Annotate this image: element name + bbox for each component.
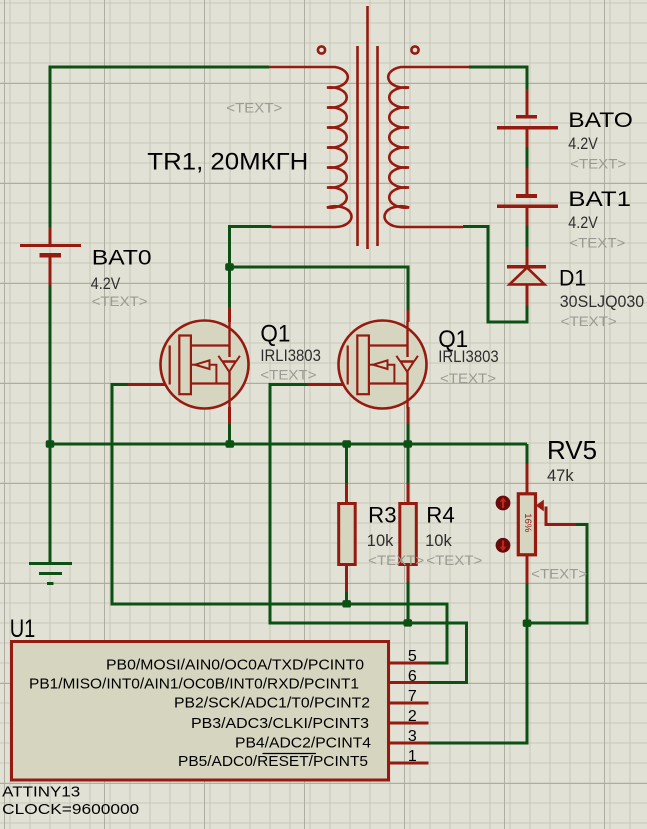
potentiometer RV5	[518, 494, 544, 555]
primary winding	[269, 67, 351, 227]
svg-text:2: 2	[408, 708, 417, 725]
transformer TR1	[269, 6, 469, 249]
svg-text:4.2V: 4.2V	[568, 214, 598, 232]
svg-text:<TEXT>: <TEXT>	[368, 552, 424, 568]
pin lead RV5 bottom	[526, 553, 529, 584]
svg-text:10k: 10k	[425, 532, 452, 550]
resistor R4	[400, 504, 417, 565]
svg-text:PB4/ADC2/PCINT4: PB4/ADC2/PCINT4	[235, 735, 371, 752]
wiper arrow	[536, 500, 544, 512]
pin stub U1 pin 6	[388, 681, 428, 684]
pin lead R3 top	[345, 483, 348, 504]
secondary winding	[385, 67, 469, 227]
wire right Q1 source to bus	[407, 424, 410, 444]
pin lead left Q1 gate	[128, 383, 170, 386]
wire RV5 bottom to pin 3	[428, 584, 527, 744]
pin lead D1 anode	[526, 284, 529, 306]
pot decrease button	[496, 538, 511, 553]
wire right Q1 gate net to pin 6	[270, 385, 467, 683]
wire R3 top	[345, 444, 348, 483]
pin stub U1 pin 5	[388, 662, 428, 665]
wire BAT0 minus down to ground and bus	[49, 285, 52, 563]
pin lead R3 bottom	[345, 564, 348, 592]
pin lead left Q1 drain	[228, 307, 231, 322]
battery BATO	[497, 117, 558, 128]
pin lead BATO bottom	[526, 128, 529, 147]
wire R4 top	[406, 444, 409, 483]
svg-text:PB2/SCK/ADC1/T0/PCINT2: PB2/SCK/ADC1/T0/PCINT2	[174, 695, 370, 712]
pin lead R4 top	[406, 483, 409, 504]
U1 chip body	[12, 642, 389, 781]
junction R4 bottom	[404, 619, 413, 626]
svg-text:PB3/ADC3/CLKI/PCINT3: PB3/ADC3/CLKI/PCINT3	[191, 715, 369, 732]
svg-text:<TEXT>: <TEXT>	[440, 370, 496, 386]
svg-text:<TEXT>: <TEXT>	[561, 313, 617, 329]
pin lead RV5 wiper	[546, 507, 576, 525]
wire RV5 top to bus	[526, 444, 529, 464]
wire main horizontal bus	[50, 443, 527, 446]
wire BAT1 to D1	[526, 226, 529, 247]
wire R4 bottom	[406, 582, 409, 623]
svg-text:10k: 10k	[367, 532, 394, 550]
svg-text:3: 3	[408, 728, 417, 745]
svg-text:PB1/MISO/INT0/AIN1/OC0B/INT0/R: PB1/MISO/INT0/AIN1/OC0B/INT0/RXD/PCINT1	[29, 676, 359, 693]
pin lead BAT0 bottom	[49, 255, 52, 285]
diode D1	[507, 267, 546, 285]
svg-text:U1: U1	[10, 615, 36, 643]
svg-text:47k: 47k	[547, 467, 574, 485]
transistor Q1 (left MOSFET)	[161, 321, 249, 409]
svg-text:ATTINY13: ATTINY13	[2, 784, 80, 801]
junction RV5 bottom node	[523, 620, 532, 627]
svg-text:R4: R4	[426, 503, 455, 528]
transistor Q1 (right MOSFET)	[339, 321, 427, 409]
battery BAT1	[497, 196, 558, 206]
svg-text:4.2V: 4.2V	[91, 275, 121, 293]
svg-text:R3: R3	[368, 503, 396, 528]
pin stub U1 pin 1	[388, 762, 428, 765]
svg-text:<TEXT>: <TEXT>	[260, 367, 316, 383]
svg-text:IRLI3803: IRLI3803	[438, 348, 499, 366]
pin lead right Q1 drain	[407, 310, 410, 322]
pin lead R4 bottom	[406, 564, 409, 582]
pin stub U1 pin 3	[388, 742, 428, 745]
svg-text:IRLI3803: IRLI3803	[260, 347, 321, 365]
svg-text:TR1, 20МКГН: TR1, 20МКГН	[147, 149, 308, 176]
pin lead D1 cathode	[526, 247, 529, 267]
wire drain branch to right Q1	[230, 267, 409, 310]
svg-text:<TEXT>: <TEXT>	[569, 235, 625, 251]
junction drain split node	[225, 263, 234, 270]
svg-text:<TEXT>: <TEXT>	[92, 293, 148, 309]
pin stub U1 pin 2	[388, 722, 428, 725]
wire D1 anode to secondary bottom	[463, 227, 527, 323]
wire left Q1 source to bus	[228, 424, 231, 444]
junction on bus at R4 / right Q1 source	[404, 440, 413, 447]
svg-text:<TEXT>: <TEXT>	[531, 566, 587, 582]
junction on bus at R3	[342, 440, 351, 447]
svg-text:4.2V: 4.2V	[568, 135, 598, 153]
pin lead left Q1 source	[228, 407, 231, 424]
svg-text:BAT1: BAT1	[568, 188, 631, 211]
wire RV5 wiper loop	[527, 524, 587, 623]
wire secondary top to BATO	[469, 67, 527, 89]
polarity dot primary	[318, 46, 325, 53]
svg-text:5: 5	[408, 648, 417, 665]
svg-text:<TEXT>: <TEXT>	[570, 155, 626, 171]
pot increase button	[496, 496, 511, 511]
junction on bus at BAT0 column	[46, 440, 55, 447]
pin lead BAT1 top	[526, 168, 529, 196]
svg-text:1: 1	[408, 748, 417, 765]
core	[358, 6, 378, 249]
svg-text:6: 6	[408, 668, 417, 685]
pin lead BAT1 bottom	[526, 206, 529, 226]
svg-text:7: 7	[408, 688, 417, 705]
svg-text:<TEXT>: <TEXT>	[226, 99, 282, 115]
pin lead right Q1 source	[407, 407, 410, 424]
wire top-left net from transformer primary top to BAT0	[50, 67, 269, 227]
svg-text:<TEXT>: <TEXT>	[426, 552, 482, 568]
junction R3 bottom	[342, 600, 351, 607]
wire left Q1 gate net to pin 5	[112, 385, 447, 664]
svg-text:PB5/ADC0/RESET/PCINT5: PB5/ADC0/RESET/PCINT5	[178, 753, 368, 770]
battery BAT0	[20, 246, 81, 256]
svg-text:BATO: BATO	[568, 109, 633, 132]
wire between BATO and BAT1	[526, 147, 529, 168]
svg-text:16%: 16%	[522, 513, 533, 533]
junction on bus at left Q1 source	[226, 440, 235, 447]
wire primary bottom to Q1 drains	[230, 227, 272, 308]
resistor R3	[339, 504, 356, 565]
pin lead RV5 top	[526, 464, 529, 494]
polarity dot secondary	[411, 46, 418, 53]
svg-text:Q1: Q1	[260, 320, 290, 347]
svg-text:RV5: RV5	[547, 435, 597, 465]
svg-text:30SLJQ030: 30SLJQ030	[560, 293, 644, 311]
pin lead right Q1 gate	[308, 383, 348, 386]
pin lead BAT0 top	[49, 227, 52, 246]
ground	[29, 564, 72, 584]
pin stub U1 pin 7	[388, 702, 428, 705]
svg-text:PB0/MOSI/AIN0/OC0A/TXD/PCINT0: PB0/MOSI/AIN0/OC0A/TXD/PCINT0	[106, 657, 364, 674]
pin lead BATO top	[526, 89, 529, 117]
svg-text:CLOCK=9600000: CLOCK=9600000	[2, 801, 139, 818]
RESET overline	[263, 753, 317, 755]
svg-text:BAT0: BAT0	[92, 246, 152, 269]
wire R3 bottom	[345, 592, 348, 604]
svg-text:D1: D1	[559, 266, 586, 291]
